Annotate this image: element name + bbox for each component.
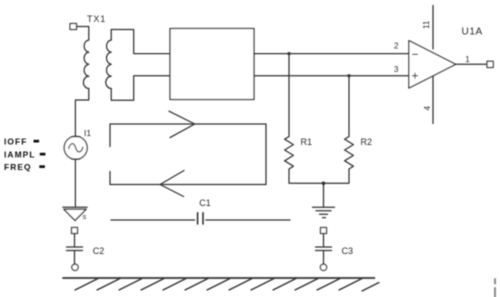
capacitor C3 <box>316 228 332 271</box>
wire R1 bottom <box>289 169 324 183</box>
I1 sine wave <box>69 144 83 152</box>
wire TX1 secondary top to block <box>111 30 170 54</box>
svg-text:IOFF: IOFF <box>4 136 27 146</box>
wire op-amp output pin 1 <box>456 63 487 65</box>
svg-text:11: 11 <box>422 20 431 29</box>
loop top arrow <box>169 111 195 137</box>
svg-text:C1: C1 <box>199 198 211 208</box>
capacitor C1 <box>111 213 290 224</box>
svg-text:TX1: TX1 <box>87 14 106 24</box>
capacitor C2 <box>67 228 83 271</box>
resistor R2 <box>345 137 354 170</box>
chassis ground plane <box>63 277 375 279</box>
op-amp plus input mark <box>413 73 418 78</box>
svg-text:FREQ: FREQ <box>4 162 32 172</box>
wire I1 to ground <box>74 159 76 207</box>
wire upper net to R1 <box>288 54 290 137</box>
wire block output upper to op-amp pin 2 <box>254 53 409 55</box>
svg-text:U1A: U1A <box>462 27 483 38</box>
op-amp U1A <box>409 41 456 89</box>
svg-text:s: s <box>83 212 87 221</box>
junction R1 top <box>287 52 290 55</box>
svg-text:I1: I1 <box>84 128 91 138</box>
I1 bottom tick <box>72 158 80 160</box>
junction R1 R2 bottom <box>322 182 326 186</box>
current source I1 <box>64 136 87 159</box>
wire R2 bottom <box>324 169 350 183</box>
svg-text:3: 3 <box>394 65 399 74</box>
transformer TX1 secondary winding <box>106 40 111 89</box>
op-amp bottom power line pin 4 <box>432 76 434 124</box>
svg-text:1: 1 <box>465 55 470 64</box>
svg-text:2: 2 <box>394 42 399 51</box>
ground (triangle, net s) <box>63 207 87 220</box>
page edge artifact <box>494 279 496 297</box>
wire junction to earth ground <box>323 183 325 207</box>
terminal P2 (output) <box>487 61 493 67</box>
terminal P1 (TX1 primary top) <box>70 24 77 30</box>
wire TX1 primary to I1 <box>75 89 88 137</box>
junction R2 top <box>347 74 350 77</box>
svg-text:4: 4 <box>423 106 432 111</box>
I1 top tick <box>72 136 80 138</box>
block (rectangle module) <box>170 29 254 100</box>
loop bottom arrow <box>160 171 184 197</box>
wire block output lower to op-amp pin 3 <box>254 75 409 77</box>
op-amp top power line pin 11 <box>432 6 434 49</box>
svg-text:R2: R2 <box>361 137 373 147</box>
op-amp minus input mark <box>413 53 418 55</box>
ground plane hatching <box>75 279 379 292</box>
label FREQ = <box>4 162 45 172</box>
svg-text:R1: R1 <box>301 137 313 147</box>
wire lower net to R2 <box>348 76 350 137</box>
label IAMPL = <box>4 149 45 159</box>
label IOFF = <box>4 136 39 146</box>
wire P1 to TX1 primary <box>77 27 89 41</box>
wire TX1 secondary bottom to block <box>111 76 170 101</box>
svg-text:IAMPL: IAMPL <box>4 149 36 159</box>
transformer TX1 primary winding <box>83 40 88 89</box>
current loop annotation <box>110 124 266 185</box>
svg-text:C3: C3 <box>342 246 354 256</box>
resistor R1 <box>285 137 294 170</box>
earth ground (analog ground 0) <box>313 207 335 217</box>
svg-text:C2: C2 <box>93 246 105 256</box>
